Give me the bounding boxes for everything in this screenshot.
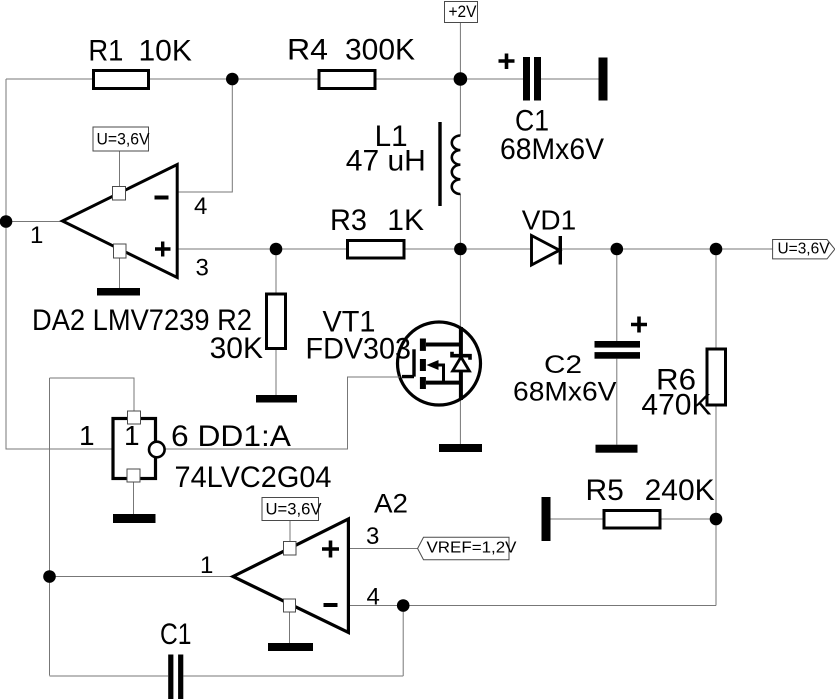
label box U=3,6V DA2	[93, 127, 150, 151]
svg-text:R4: R4	[287, 34, 328, 67]
wire R5 right	[660, 518, 716, 520]
wire DD1 Vcc up and left	[50, 378, 135, 411]
wire bottom rail right	[183, 675, 403, 677]
wire left column to DD1 input	[6, 79, 113, 449]
wire R6 bottom	[715, 405, 717, 519]
node junction DA2 output	[0, 215, 12, 228]
svg-text:U=3,6V: U=3,6V	[97, 131, 150, 149]
wire A2 pin3	[348, 548, 417, 550]
svg-text:1: 1	[200, 552, 213, 579]
flag VREF=1,2V	[418, 537, 518, 559]
resistor R2	[267, 294, 286, 349]
wire +2V drop	[459, 23, 461, 80]
ground A2	[268, 643, 313, 651]
svg-text:1: 1	[30, 222, 43, 249]
svg-text:68Mx6V: 68Mx6V	[500, 133, 604, 166]
wire C2 top	[616, 249, 618, 341]
ground R2	[256, 395, 297, 403]
wire L1 column lower	[459, 194, 461, 249]
inductor L1 core bar	[438, 122, 441, 206]
node junction +2V rail	[454, 72, 468, 86]
resistor R3	[348, 241, 405, 259]
plus sign C2	[631, 317, 647, 333]
svg-text:R5: R5	[586, 474, 624, 507]
wire pin4 drop to bottom rail	[402, 606, 404, 677]
svg-text:4: 4	[367, 584, 380, 611]
ground VT1	[439, 444, 482, 452]
wire DD1 output to VT1 gate	[165, 377, 400, 449]
capacitor C1 bottom plate1	[168, 655, 173, 699]
svg-text:4: 4	[194, 193, 207, 220]
plus sign C1	[499, 54, 515, 70]
wire R6 top	[715, 249, 717, 349]
svg-text:+2V: +2V	[449, 3, 477, 21]
svg-text:1K: 1K	[387, 204, 424, 237]
node junction C2 tap	[611, 243, 624, 256]
wire top rail left	[6, 78, 94, 80]
svg-text:R3: R3	[330, 204, 367, 237]
svg-text:U=3,6V: U=3,6V	[266, 501, 322, 519]
wire R2 top	[275, 249, 277, 294]
ground bar right of C1	[599, 58, 608, 101]
flag U=3,6V output	[773, 240, 835, 259]
wire DA2 top square to label	[119, 151, 121, 187]
svg-text:VD1: VD1	[522, 205, 576, 236]
svg-text:C2: C2	[544, 351, 582, 379]
wire bottom rail left	[50, 675, 169, 677]
capacitor C1 bottom plate2	[178, 655, 183, 699]
op-amp A2	[233, 519, 348, 633]
svg-text:240K: 240K	[645, 474, 715, 507]
wire R2 bottom to ground	[275, 349, 277, 396]
wire A2 pin4	[348, 605, 716, 607]
svg-text:1: 1	[124, 420, 140, 451]
svg-text:VREF=1,2V: VREF=1,2V	[427, 540, 518, 557]
capacitor C1 plate2	[534, 57, 541, 101]
resistor R5	[604, 511, 660, 529]
capacitor C2 plate1	[595, 341, 641, 348]
label box U=3,6V A2	[262, 498, 322, 521]
wire R5 left to ground bar	[551, 518, 605, 520]
node junction R6 tap	[710, 243, 723, 256]
wire A2 top square to label	[289, 521, 291, 542]
node junction pin3 R2	[270, 243, 283, 256]
resistor R4	[319, 71, 375, 89]
transistor VT1	[398, 322, 481, 405]
wire R5 node down	[715, 519, 717, 606]
node junction top R1-R4	[226, 73, 239, 86]
wire VD1 to right	[560, 248, 773, 250]
wire A2 bottom square to ground	[289, 612, 291, 643]
svg-text:U=3,6V: U=3,6V	[778, 241, 830, 258]
ground DA2	[97, 288, 140, 296]
svg-text:3: 3	[366, 523, 379, 550]
wire DA2 bottom square to ground	[119, 258, 121, 288]
svg-text:R1: R1	[88, 35, 123, 68]
resistor R6	[707, 349, 726, 405]
svg-text:68Mx6V: 68Mx6V	[513, 377, 617, 407]
node junction pin4	[397, 599, 410, 612]
svg-text:1: 1	[79, 420, 95, 451]
svg-text:47 uH: 47 uH	[346, 145, 426, 178]
svg-text:C1: C1	[160, 618, 192, 651]
ground bar left of R5	[542, 497, 551, 541]
diode VD1	[532, 236, 561, 266]
inverter DD1:A	[113, 411, 165, 482]
svg-text:470K: 470K	[641, 389, 711, 422]
svg-text:FDV303: FDV303	[306, 333, 412, 366]
wire A2 output	[50, 576, 234, 578]
ground DD1	[113, 514, 156, 523]
op-amp DA2	[63, 165, 178, 278]
node junction R5 R6	[710, 513, 723, 526]
svg-text:A2: A2	[374, 489, 408, 519]
svg-text:6 DD1:A: 6 DD1:A	[171, 420, 291, 453]
svg-text:30K: 30K	[210, 332, 263, 365]
wire R3 to drain node	[404, 248, 531, 250]
svg-text:3: 3	[196, 255, 209, 282]
wire mid rail to R3	[276, 248, 348, 250]
resistor R1	[94, 71, 149, 89]
node junction A2 output	[43, 570, 56, 583]
inductor L1 coil	[452, 136, 461, 195]
wire DA2 pin4 feedback	[177, 79, 232, 192]
wire DA2 pin3	[177, 248, 276, 250]
svg-text:10K: 10K	[139, 35, 192, 68]
wire DA2 output	[6, 221, 63, 223]
capacitor C2 plate2	[595, 352, 641, 359]
wire top rail R4 to C1	[375, 78, 523, 80]
svg-text:74LVC2G04: 74LVC2G04	[175, 461, 332, 494]
wire C2 bottom to ground	[616, 359, 618, 445]
wire drain source column	[459, 249, 461, 444]
ground C2	[596, 445, 638, 453]
label box +2V	[445, 2, 478, 23]
wire top rail R1 to R4	[149, 78, 320, 80]
svg-text:300K: 300K	[345, 34, 415, 67]
wire C1 to ground bar	[541, 78, 599, 80]
wire left column B	[49, 378, 51, 676]
capacitor C1 plate1	[523, 57, 530, 101]
node junction drain	[454, 243, 467, 256]
wire L1 column upper	[459, 79, 461, 136]
wire DD1 ground	[133, 482, 135, 514]
